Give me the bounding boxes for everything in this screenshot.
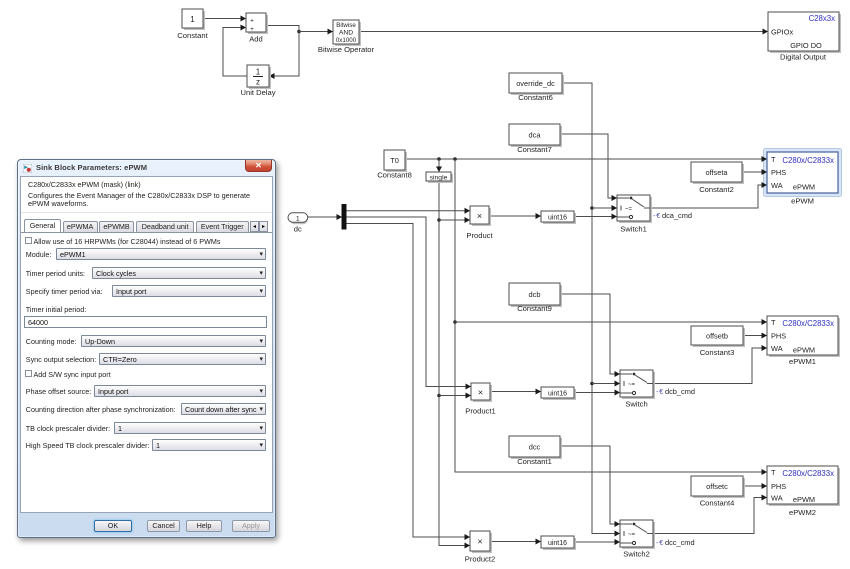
wire Constant to Add bbox=[203, 16, 246, 22]
label Constant9 bbox=[517, 304, 552, 313]
dialog row Timer period units: bbox=[21, 267, 272, 279]
wire offsetb to ePWM1 PHS bbox=[743, 333, 767, 339]
label ePWM1 bbox=[789, 357, 816, 366]
dialog close button bbox=[245, 160, 272, 172]
label Switch2 bbox=[623, 550, 650, 559]
svg-text:ePWM: ePWM bbox=[791, 197, 814, 206]
label Switch1 bbox=[620, 225, 647, 234]
constant block dca bbox=[509, 124, 562, 147]
svg-text:override_dc: override_dc bbox=[516, 79, 555, 88]
svg-text:Switch1: Switch1 bbox=[620, 225, 647, 234]
svg-text:Switch: Switch bbox=[625, 400, 647, 409]
dialog row Counting mode: bbox=[21, 335, 272, 347]
unit delay block Unit Delay bbox=[247, 65, 271, 89]
selection glow ePWM bbox=[764, 149, 842, 197]
svg-text:Constant7: Constant7 bbox=[517, 145, 552, 154]
constant block Constant value 1 bbox=[182, 9, 205, 30]
wire Product to uint16 bbox=[489, 213, 541, 219]
wire single branch to Product input 2 bbox=[439, 217, 470, 223]
svg-text:PHS: PHS bbox=[771, 332, 786, 341]
svg-text:Constant3: Constant3 bbox=[700, 348, 735, 357]
wire Switch output to ePWM1 WA bbox=[653, 345, 767, 384]
wire Demux out3 to Product2 input 1 bbox=[347, 224, 471, 541]
wire Unit Delay output to Add input 2 bbox=[223, 25, 247, 77]
svg-text:uint16: uint16 bbox=[548, 391, 567, 398]
svg-text:ePWM: ePWM bbox=[793, 183, 815, 192]
label Bitwise Operator bbox=[318, 45, 375, 54]
svg-text:ePWM: ePWM bbox=[793, 495, 815, 504]
svg-text:Switch2: Switch2 bbox=[623, 550, 650, 559]
dialog row Phase offset source: bbox=[21, 385, 272, 397]
dialog row High Speed TB clock prescaler divider: bbox=[21, 439, 272, 451]
wire Product2 to uint16-2 bbox=[490, 539, 541, 545]
demux block (3 outputs) bbox=[342, 204, 347, 230]
wire uint16-1 to Switch input 3 bbox=[574, 390, 620, 396]
text field 64000 bbox=[24, 316, 267, 328]
ePWM block ePWM (selected) bbox=[767, 152, 838, 193]
svg-text:ePWM1: ePWM1 bbox=[789, 357, 816, 366]
svg-text:+: + bbox=[250, 18, 254, 25]
svg-text:uint16: uint16 bbox=[548, 540, 567, 547]
svg-text:€: € bbox=[659, 540, 663, 547]
svg-text:1: 1 bbox=[190, 15, 195, 24]
wire Demux out1 to Product input 1 bbox=[347, 208, 471, 214]
label Constant bbox=[177, 31, 208, 40]
constant block dcc bbox=[509, 436, 562, 459]
tab strip bbox=[21, 232, 272, 233]
wire Bitwise Operator to Digital Output GPIOx bbox=[359, 29, 768, 35]
svg-text:Constant4: Constant4 bbox=[700, 499, 735, 508]
label Timer initial period bbox=[26, 305, 86, 314]
data type conversion block uint16 (A) bbox=[541, 211, 576, 224]
svg-text:Add: Add bbox=[249, 35, 263, 44]
wire dca to Switch1 input 1 bbox=[560, 134, 617, 201]
label Switch bbox=[625, 400, 647, 409]
wire Demux out2 to Product1 input 1 bbox=[347, 217, 472, 390]
svg-text:uint16: uint16 bbox=[548, 215, 567, 222]
svg-text:dca: dca bbox=[529, 131, 542, 140]
dialog row Sync output selection: bbox=[21, 353, 272, 365]
svg-text:ePWM2: ePWM2 bbox=[789, 508, 816, 517]
wire Switch1 output to ePWM WA bbox=[650, 182, 767, 208]
wire single output bus down bbox=[437, 181, 470, 549]
wire dc inport to Demux bbox=[308, 214, 342, 220]
svg-text:PHS: PHS bbox=[771, 482, 786, 491]
sum block Add bbox=[246, 13, 268, 34]
svg-text:dc: dc bbox=[294, 225, 302, 234]
inport block dc (port 1) bbox=[288, 213, 308, 224]
svg-text:C28x3x: C28x3x bbox=[809, 14, 836, 23]
dialog window Sink Block Parameters: ePWM bbox=[17, 159, 276, 538]
goto tag dcb_cmd bbox=[656, 387, 695, 396]
dialog content panel bbox=[20, 176, 273, 513]
svg-text:dcc_cmd: dcc_cmd bbox=[665, 538, 695, 547]
dialog row Counting direction after phase synchronization: bbox=[21, 403, 272, 415]
wire T0 branch into single bbox=[436, 159, 442, 172]
svg-text:+: + bbox=[250, 26, 254, 33]
svg-text:Constant: Constant bbox=[177, 31, 208, 40]
svg-text:T: T bbox=[771, 318, 776, 327]
constant block offsetc bbox=[691, 476, 745, 498]
product block Product1 bbox=[471, 383, 492, 402]
checkbox Add S/W sync input port bbox=[25, 370, 32, 377]
svg-text:Constant2: Constant2 bbox=[699, 185, 734, 194]
svg-text:dcb_cmd: dcb_cmd bbox=[665, 387, 695, 396]
svg-text:Product2: Product2 bbox=[465, 555, 495, 564]
wire override_dc bus down bbox=[562, 83, 620, 537]
constant block dcb bbox=[509, 283, 562, 307]
wire override_dc branch to Switch1 control bbox=[592, 205, 617, 211]
svg-text:Constant8: Constant8 bbox=[377, 171, 412, 180]
label Product bbox=[466, 231, 493, 240]
ePWM block ePWM1 bbox=[767, 316, 840, 357]
wire override_dc branch to Switch control bbox=[592, 381, 620, 387]
svg-text:Product1: Product1 bbox=[465, 407, 495, 416]
wire uint16 to Switch1 input 3 bbox=[574, 214, 617, 220]
label Product1 bbox=[465, 407, 495, 416]
data type conversion block uint16 (B) bbox=[541, 387, 576, 400]
svg-text:z: z bbox=[256, 78, 260, 87]
goto tag dca_cmd bbox=[653, 211, 692, 220]
label ePWM2 bbox=[789, 508, 816, 517]
dialog title text bbox=[36, 163, 147, 172]
label Constant3 bbox=[700, 348, 735, 357]
label Constant4 bbox=[700, 499, 735, 508]
svg-text:T: T bbox=[771, 468, 776, 477]
label Constant7 bbox=[517, 145, 552, 154]
constant block offseta bbox=[691, 162, 744, 184]
svg-text:offsetc: offsetc bbox=[706, 482, 728, 491]
wire Add output to Unit Delay (feedback down) bbox=[266, 26, 301, 80]
svg-text:~=: ~= bbox=[628, 382, 636, 388]
wire branch to ePWM1 T input bbox=[455, 319, 767, 325]
svg-text:Digital Output: Digital Output bbox=[780, 53, 827, 62]
constant block offsetb bbox=[691, 326, 745, 347]
svg-text:€: € bbox=[659, 389, 663, 396]
svg-text:Product: Product bbox=[466, 231, 493, 240]
digital output block GPIO DO bbox=[768, 12, 841, 53]
switch block Switch2 bbox=[620, 520, 655, 549]
svg-text:dcb: dcb bbox=[529, 290, 541, 299]
bitwise operator block Bitwise AND 0x1000 bbox=[333, 20, 361, 46]
label ePWM bbox=[791, 197, 814, 206]
svg-text:offsetb: offsetb bbox=[706, 332, 728, 341]
goto tag dcc_cmd bbox=[656, 538, 695, 547]
svg-text:1: 1 bbox=[296, 216, 300, 223]
svg-text:Constant6: Constant6 bbox=[518, 93, 553, 102]
wire offsetc to ePWM2 PHS bbox=[743, 483, 767, 489]
checkbox Allow use of 16 HRPWMs bbox=[25, 237, 32, 244]
svg-text:~=: ~= bbox=[628, 532, 636, 538]
svg-text:dca_cmd: dca_cmd bbox=[662, 211, 692, 220]
svg-text:~=: ~= bbox=[625, 207, 633, 213]
label Digital Output bbox=[780, 53, 827, 62]
product block Product2 bbox=[470, 531, 492, 553]
wire T0 to ePWM T input bbox=[405, 156, 767, 162]
constant block override_dc bbox=[509, 73, 564, 95]
wire offseta to ePWM PHS bbox=[742, 169, 767, 175]
label Constant6 bbox=[518, 93, 553, 102]
svg-text:GPIO DO: GPIO DO bbox=[790, 41, 822, 50]
svg-text:×: × bbox=[478, 388, 483, 398]
data type conversion block single bbox=[426, 172, 453, 183]
svg-text:AND: AND bbox=[339, 30, 353, 37]
svg-text:single: single bbox=[430, 175, 448, 182]
wire junction to Bitwise Operator bbox=[299, 29, 333, 35]
wire dcc to Switch2 input 1 bbox=[560, 446, 620, 527]
svg-text:Constant1: Constant1 bbox=[517, 457, 552, 466]
svg-text:Bitwise: Bitwise bbox=[336, 22, 356, 29]
svg-text:Constant9: Constant9 bbox=[517, 304, 552, 313]
svg-text:C280x/C2833x: C280x/C2833x bbox=[782, 469, 834, 478]
wire dcb to Switch input 1 bbox=[560, 294, 620, 377]
svg-text:×: × bbox=[477, 211, 482, 221]
switch block Switch bbox=[620, 370, 655, 399]
label Add bbox=[249, 35, 263, 44]
mask title bbox=[28, 180, 141, 189]
constant block T0 bbox=[384, 150, 407, 172]
label Product2 bbox=[465, 555, 495, 564]
mask description bbox=[28, 192, 257, 209]
svg-text:C280x/C2833x: C280x/C2833x bbox=[782, 319, 834, 328]
svg-text:T: T bbox=[771, 155, 776, 164]
dialog title icon bbox=[23, 164, 32, 173]
svg-text:dcc: dcc bbox=[529, 443, 541, 452]
dialog row Module: bbox=[21, 248, 272, 260]
ePWM block ePWM2 bbox=[767, 466, 840, 506]
svg-text:1: 1 bbox=[256, 68, 261, 77]
svg-text:T0: T0 bbox=[390, 156, 399, 165]
data type conversion block uint16 (C) bbox=[541, 536, 576, 550]
dialog row Specify timer period via: bbox=[21, 285, 272, 297]
svg-text:€: € bbox=[656, 213, 660, 220]
svg-text:WA: WA bbox=[771, 344, 783, 353]
svg-text:WA: WA bbox=[771, 494, 783, 503]
svg-text:Bitwise Operator: Bitwise Operator bbox=[318, 45, 375, 54]
dialog row TB clock prescaler divider: bbox=[21, 422, 272, 434]
svg-text:PHS: PHS bbox=[771, 168, 786, 177]
label Unit Delay bbox=[240, 88, 275, 97]
label Constant8 bbox=[377, 171, 412, 180]
product block Product bbox=[470, 206, 491, 226]
svg-text:offseta: offseta bbox=[705, 168, 728, 177]
svg-text:0x1000: 0x1000 bbox=[336, 37, 357, 44]
svg-text:WA: WA bbox=[771, 181, 783, 190]
label Constant1 bbox=[517, 457, 552, 466]
svg-text:C280x/C2833x: C280x/C2833x bbox=[782, 156, 834, 165]
wire T0 bus down to ePWM1 and ePWM2 T inputs bbox=[453, 159, 767, 475]
wire Product1 to uint16-1 bbox=[490, 389, 541, 395]
svg-text:Unit Delay: Unit Delay bbox=[240, 88, 275, 97]
wire uint16-2 to Switch2 input 3 bbox=[574, 539, 620, 545]
svg-text:ePWM: ePWM bbox=[793, 346, 815, 355]
svg-text:×: × bbox=[477, 537, 482, 547]
svg-text:GPIOx: GPIOx bbox=[771, 28, 793, 37]
wire single branch to Product1 input 2 bbox=[439, 393, 471, 399]
label Constant2 bbox=[699, 185, 734, 194]
switch block Switch1 bbox=[617, 195, 652, 223]
wire Switch2 output to ePWM2 WA bbox=[653, 495, 767, 534]
dialog buttons bbox=[94, 520, 132, 532]
label dc bbox=[294, 225, 302, 234]
